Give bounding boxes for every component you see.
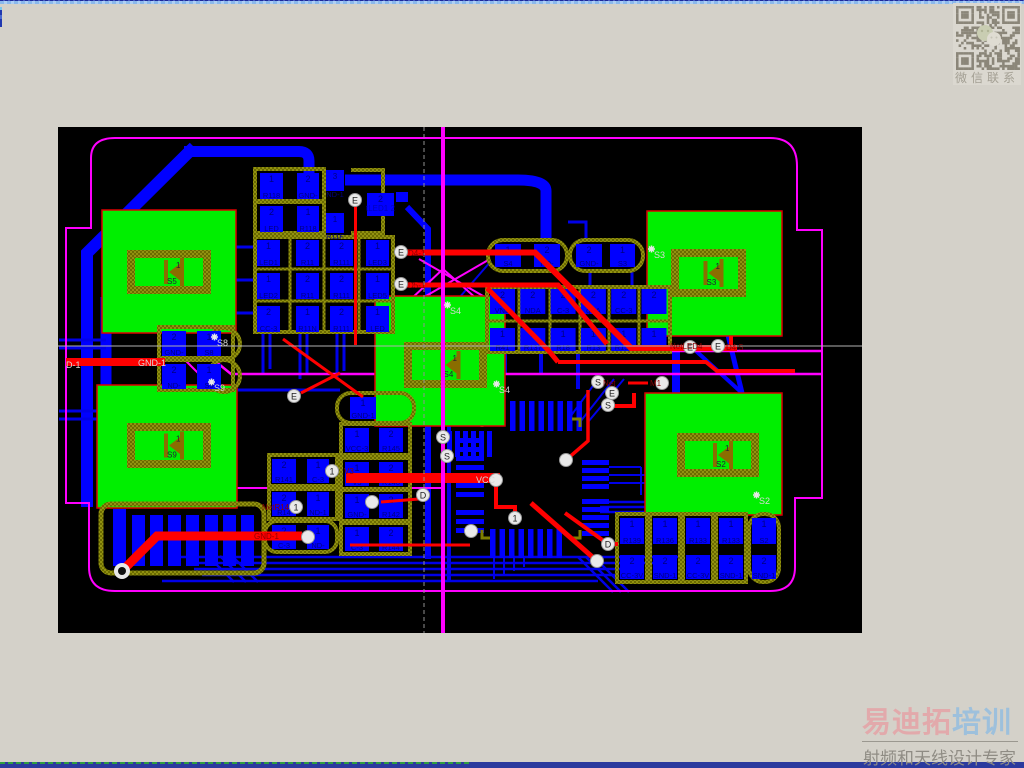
svg-text:2: 2 <box>388 429 393 439</box>
svg-text:2: 2 <box>171 365 176 375</box>
guide gray horizontal crosshair <box>58 345 862 347</box>
svg-text:2: 2 <box>305 241 310 251</box>
svg-text:GND-1: GND-1 <box>351 411 374 420</box>
pad 3 GND-1 <box>326 170 344 199</box>
svg-text:ND-1: ND-1 <box>309 508 327 517</box>
svg-text:2: 2 <box>761 556 766 566</box>
IC U1 QFP footprint pins <box>456 401 609 558</box>
svg-text:1: 1 <box>333 215 338 224</box>
svg-text:1: 1 <box>375 241 380 251</box>
svg-text:S4: S4 <box>503 259 512 268</box>
svg-text:NetR14: NetR14 <box>262 503 290 512</box>
svg-text:R142: R142 <box>382 510 400 519</box>
svg-text:1: 1 <box>662 519 667 529</box>
svg-text:LED2: LED2 <box>259 291 278 300</box>
wire thick blue top-left diagonal/vertical <box>87 147 194 507</box>
testpoint E at 660,219 <box>712 340 725 353</box>
wire blue under S9 horizontal <box>230 389 340 392</box>
svg-text:1: 1 <box>354 463 359 473</box>
testpoint 1 at 238,380 <box>290 501 303 514</box>
trace red VCC bar <box>346 473 500 483</box>
svg-text:R136: R136 <box>656 536 674 545</box>
svg-text:1: 1 <box>315 493 320 503</box>
pad column S2 bottom-right <box>749 514 779 582</box>
svg-text:GND-: GND- <box>298 191 318 200</box>
wire magenta bowtie diagonals <box>410 259 490 300</box>
svg-text:2: 2 <box>530 290 535 300</box>
bracket outline around pads 3/1 <box>351 170 383 233</box>
pads GND/S9 <box>159 360 233 390</box>
svg-text:S4: S4 <box>450 306 461 316</box>
component S5 courtyard <box>131 254 207 290</box>
svg-text:1: 1 <box>512 514 517 524</box>
svg-text:CC-3: CC-3 <box>260 324 278 333</box>
svg-text:ND-: ND- <box>311 541 325 550</box>
wire thick blue bar GND to pill <box>345 180 546 242</box>
pad column R136 bottom-right <box>650 514 680 582</box>
logo tagline 射频和天线设计专家 <box>863 744 1021 768</box>
pad column R139 bottom-right <box>617 514 647 582</box>
svg-text:CC-3V: CC-3V <box>687 571 710 580</box>
trace red GND stub <box>381 499 419 502</box>
testpoint E at 343,125 <box>395 246 408 259</box>
svg-text:D: D <box>420 491 427 501</box>
pad row R14x at y363 <box>341 490 410 521</box>
wire blue right fan of QFP <box>609 467 654 499</box>
svg-text:1: 1 <box>354 495 359 505</box>
svg-text:NDA: NDA <box>525 306 541 315</box>
polygon pour S4 <box>375 296 505 426</box>
svg-text:2: 2 <box>305 274 310 284</box>
trace red diagonal S8 region <box>283 339 363 397</box>
svg-text:2: 2 <box>378 194 383 204</box>
svg-text:C-3: C-3 <box>312 475 324 484</box>
svg-text:1: 1 <box>375 307 380 317</box>
connector J1 pins <box>113 509 254 566</box>
svg-text:R111: R111 <box>333 324 350 333</box>
svg-text:SND-1: SND-1 <box>753 571 776 580</box>
svg-text:2: 2 <box>339 274 344 284</box>
svg-text:D5-1: D5-1 <box>408 281 426 290</box>
svg-text:S8: S8 <box>204 348 213 357</box>
svg-text:CC-3V: CC-3V <box>621 571 644 580</box>
pad row R14x at y297 <box>341 424 410 455</box>
testpoint E at 343,157 <box>395 278 408 291</box>
trace red GND-1 left bar <box>66 358 165 366</box>
testpoint via at 539,434 <box>591 555 604 568</box>
svg-text:2: 2 <box>281 460 286 470</box>
svg-text:M1: M1 <box>650 379 662 388</box>
wire blue L near pill S3 <box>568 222 586 240</box>
svg-text:2: 2 <box>339 307 344 317</box>
svg-text:D4-5: D4-5 <box>726 343 744 352</box>
wire blue stub pill S3 down <box>590 271 632 287</box>
svg-text:LED1: LED1 <box>259 258 278 267</box>
pad row R14x at y331 <box>341 458 410 489</box>
svg-text:R11N: R11N <box>298 324 317 333</box>
svg-text:tLED1 2: tLED1 2 <box>366 204 395 213</box>
pill pad GND-1 <box>337 393 414 423</box>
top window edge light blue line <box>0 1 1024 4</box>
svg-text:2: 2 <box>388 528 393 538</box>
svg-text:2: 2 <box>305 174 310 184</box>
wire magenta bottom-left diagonals <box>182 357 209 384</box>
svg-text:GND-1: GND-1 <box>254 532 279 541</box>
svg-text:CC-3: CC-3 <box>615 306 633 315</box>
PCB editor canvas <box>58 127 862 633</box>
wechat QR code <box>956 6 1020 70</box>
pad column R133 bottom-right <box>716 514 746 582</box>
wire blue diagonal to G4 <box>696 351 742 393</box>
connector J1 outline <box>101 504 264 573</box>
svg-text:VCC-3: VCC-3 <box>346 444 369 453</box>
svg-text:LED: LED <box>264 224 279 233</box>
wire blue stubs below resistor array <box>263 333 344 379</box>
wire blue stubs left edge <box>59 411 98 419</box>
testpoint E at 236,269 <box>288 390 301 403</box>
guide gray dashed vertical <box>423 127 425 633</box>
testpoint via at 314,375 <box>366 496 379 509</box>
svg-text:SND-1: SND-1 <box>654 571 677 580</box>
svg-text:R145: R145 <box>382 444 400 453</box>
svg-text:S3: S3 <box>707 278 717 287</box>
svg-text:E: E <box>398 248 404 258</box>
svg-text:R18: R18 <box>556 343 570 352</box>
svg-text:E: E <box>609 389 615 399</box>
svg-text:1: 1 <box>305 307 310 317</box>
via rings S8/S9 <box>208 328 240 392</box>
svg-text:R11: R11 <box>301 291 314 300</box>
testpoint D at 550,417 <box>602 538 615 551</box>
svg-text:1: 1 <box>293 503 298 513</box>
svg-text:S4: S4 <box>444 370 454 379</box>
svg-text:S: S <box>440 433 446 443</box>
testpoint via at 413,404 <box>465 525 478 538</box>
svg-text:R111: R111 <box>333 291 350 300</box>
svg-text:LED5: LED5 <box>368 291 387 300</box>
testpoint E at 632,220 <box>684 341 697 354</box>
svg-text:R133: R133 <box>722 536 740 545</box>
trace red via to pad D <box>565 513 618 544</box>
pad LED1 2 <box>366 192 408 216</box>
svg-text:S4: S4 <box>499 385 510 395</box>
wire blue stubs G1 to resistor array <box>236 247 256 313</box>
wire magenta horizontal right net <box>665 350 822 353</box>
svg-text:1: 1 <box>266 241 271 251</box>
wire blue vertical cluster C to G4 <box>672 346 680 393</box>
svg-text:2: 2 <box>269 207 274 217</box>
svg-text:2: 2 <box>266 307 271 317</box>
resistor array R13x frames <box>487 287 670 352</box>
pads LED/R118 row2 <box>260 206 319 233</box>
svg-text:1: 1 <box>176 435 181 444</box>
testpoint via at 438,353 <box>490 474 503 487</box>
wechat logo blob in QR center <box>977 25 1001 46</box>
svg-text:E: E <box>398 280 404 290</box>
trace red VCC drop to via <box>496 482 515 518</box>
polygon pour S3 <box>647 211 782 336</box>
svg-text:S: S <box>444 452 450 462</box>
wire blue diagonals array to center <box>394 303 458 377</box>
pad row 3 of array <box>257 240 389 267</box>
svg-text:2: 2 <box>586 245 591 255</box>
pill footprint GND/S3 <box>570 240 643 271</box>
svg-text:D4-1: D4-1 <box>408 249 426 258</box>
wire blue fan QFP top-right to array <box>570 379 624 422</box>
svg-text:1: 1 <box>206 332 211 342</box>
testpoint E at 554,266 <box>606 387 619 400</box>
pin row small stripes under G5 <box>447 431 492 457</box>
svg-text:GND-: GND- <box>347 510 367 519</box>
trace red top of QFP <box>566 390 588 460</box>
svg-text:2: 2 <box>651 290 656 300</box>
svg-text:1: 1 <box>620 245 625 255</box>
svg-text:C-3: C-3 <box>557 306 569 315</box>
component S2 courtyard <box>681 437 755 473</box>
svg-text:E: E <box>352 196 358 206</box>
svg-text:3: 3 <box>333 172 338 181</box>
trace red vertical through array <box>354 200 357 345</box>
svg-text:1: 1 <box>651 329 656 339</box>
pad row bottom of R13x array <box>490 328 667 352</box>
pad row top of R13x array <box>490 289 667 315</box>
board outline keepout magenta <box>66 138 822 591</box>
svg-text:1: 1 <box>176 261 181 270</box>
trace red right of QFP <box>608 393 634 406</box>
IC U1 courtyard corner marks <box>482 419 580 538</box>
svg-text:1: 1 <box>354 429 359 439</box>
svg-text:S2: S2 <box>759 496 770 506</box>
wire blue mid vertical under crosshair <box>407 207 428 559</box>
svg-text:1: 1 <box>728 519 733 529</box>
svg-text:1: 1 <box>329 467 334 477</box>
svg-text:R141: R141 <box>275 475 293 484</box>
svg-text:LED3: LED3 <box>368 258 387 267</box>
svg-text:1: 1 <box>761 519 766 529</box>
testpoint D at 365,368 <box>417 489 430 502</box>
svg-text:R13: R13 <box>587 343 601 352</box>
site logo 易迪拓培训 <box>862 707 1018 739</box>
wire blue bottom bundle <box>162 502 683 592</box>
wire blue vertical near cursor <box>447 390 451 582</box>
trace red thick connector GND <box>122 536 302 571</box>
svg-text:S2: S2 <box>759 536 768 545</box>
svg-text:2: 2 <box>388 463 393 473</box>
testpoint S at 550,278 <box>602 399 615 412</box>
bottom taskbar green dashes <box>0 762 470 764</box>
svg-text:GND-: GND- <box>164 348 184 357</box>
svg-text:2: 2 <box>728 556 733 566</box>
svg-text:2: 2 <box>621 290 626 300</box>
svg-text:2: 2 <box>591 290 596 300</box>
top window edge dark blue line <box>0 0 1024 1</box>
trace red D4 horizontal + diagonal <box>400 253 737 349</box>
svg-text:2: 2 <box>695 556 700 566</box>
svg-text:1: 1 <box>354 528 359 538</box>
component S9 courtyard <box>131 427 207 464</box>
svg-text:LED: LED <box>370 324 385 333</box>
pad column R133 bottom-right <box>683 514 713 582</box>
svg-text:1: 1 <box>453 354 458 363</box>
pad row 5 of array <box>257 306 389 333</box>
wechat QR panel <box>953 3 1021 85</box>
svg-text:1: 1 <box>725 444 730 453</box>
svg-text:R41: R41 <box>496 343 510 352</box>
pill footprint S4/GND <box>488 240 567 271</box>
pad block R141 rows <box>269 455 337 486</box>
testpoint S at 385,310 <box>437 431 450 444</box>
cursor magenta vertical line <box>441 127 445 633</box>
svg-text:1: 1 <box>269 174 274 184</box>
wechat contact caption 微信联系 <box>953 69 1021 86</box>
svg-text:GND-: GND- <box>579 259 599 268</box>
trace red E testpoint stub <box>301 373 340 393</box>
svg-text:S3: S3 <box>618 259 627 268</box>
trace red D5 horizontal + diagonal <box>401 285 607 362</box>
svg-text:2: 2 <box>544 245 549 255</box>
wire magenta long horizontal net <box>204 352 822 374</box>
svg-text:NetLED4: NetLED4 <box>670 342 703 351</box>
svg-text:S5: S5 <box>167 277 177 286</box>
testpoint via at 604,256 <box>656 377 669 390</box>
trace red net M1 stub <box>628 382 648 385</box>
pad row 4 of array <box>257 273 389 300</box>
polygon pour S2 <box>645 393 782 515</box>
wire blue diagonal to pill S4 <box>459 261 491 298</box>
svg-text:2: 2 <box>171 332 176 342</box>
testpoint 1 at 274,344 <box>326 465 339 478</box>
svg-text:1: 1 <box>360 398 365 408</box>
wire blue G2 to G4 diagonal <box>728 335 742 393</box>
svg-text:1: 1 <box>716 262 721 271</box>
svg-text:1: 1 <box>375 274 380 284</box>
svg-text:Net: Net <box>603 379 616 388</box>
svg-text:D-1: D-1 <box>66 360 81 370</box>
svg-text:2: 2 <box>662 556 667 566</box>
pads R118/GND row1 <box>260 173 319 200</box>
svg-text:S8: S8 <box>217 338 228 348</box>
svg-text:2: 2 <box>339 241 344 251</box>
component S4 courtyard <box>408 346 483 384</box>
wire blue drops under cluster C <box>505 353 578 389</box>
svg-text:1: 1 <box>561 329 566 339</box>
wire thick blue top bar to pad column <box>184 152 309 194</box>
svg-text:E: E <box>291 392 297 402</box>
svg-text:1: 1 <box>315 526 320 536</box>
component S3 courtyard <box>675 253 742 293</box>
svg-text:GND-1: GND-1 <box>138 358 166 368</box>
svg-text:R111: R111 <box>333 258 350 267</box>
svg-text:S2: S2 <box>716 460 726 469</box>
svg-text:D: D <box>605 540 612 550</box>
svg-text:S9: S9 <box>214 383 225 393</box>
testpoint E at 297,73 <box>349 194 362 207</box>
svg-text:ND-: ND- <box>167 381 181 390</box>
svg-text:1: 1 <box>500 329 505 339</box>
wire blue drops QFP bottom to bundle <box>494 558 524 579</box>
svg-text:1: 1 <box>315 460 320 470</box>
testpoint via at 508,333 <box>560 454 573 467</box>
svg-text:R11F: R11F <box>326 232 344 241</box>
testpoint O at 64,444 <box>114 563 130 579</box>
wire thick blue second vertical left <box>101 297 112 505</box>
svg-text:2: 2 <box>281 493 286 503</box>
svg-text:R118: R118 <box>263 191 280 200</box>
trace red right elbow net <box>558 336 795 371</box>
testpoint 1 at 457,391 <box>509 512 522 525</box>
svg-text:SND-1: SND-1 <box>720 571 743 580</box>
pad row R14x at y396 <box>341 523 410 554</box>
bottom taskbar bar <box>0 762 1024 768</box>
svg-text:R118: R118 <box>299 224 316 233</box>
testpoint S at 540,255 <box>592 376 605 389</box>
svg-text:R139: R139 <box>623 536 641 545</box>
svg-text:R133: R133 <box>689 536 707 545</box>
polygon pour S5 <box>102 210 236 333</box>
pads GND/S8 <box>159 327 233 358</box>
svg-text:1: 1 <box>206 365 211 375</box>
svg-text:ND-1: ND-1 <box>326 190 344 199</box>
testpoint S at 389,329 <box>441 450 454 463</box>
svg-text:R11: R11 <box>301 258 314 267</box>
svg-text:1: 1 <box>695 519 700 529</box>
svg-text:C-3: C-3 <box>278 541 290 550</box>
trace red diagonal QFP to S2 <box>531 503 597 561</box>
trace red row3 horizontal <box>350 544 470 547</box>
svg-text:VCC: VCC <box>476 475 496 485</box>
svg-text:S9: S9 <box>167 451 177 460</box>
logo underline <box>862 741 1018 742</box>
wire magenta horizontal left-center net <box>189 487 443 489</box>
svg-text:E: E <box>715 342 721 352</box>
svg-text:S: S <box>595 378 601 388</box>
svg-text:S: S <box>605 401 611 411</box>
resistor-LED array R118 group frames <box>255 169 393 332</box>
svg-text:1: 1 <box>629 519 634 529</box>
svg-text:S3: S3 <box>654 250 665 260</box>
svg-text:1: 1 <box>305 207 310 217</box>
polygon pour S9 <box>97 385 237 508</box>
testpoint via at 250,410 <box>302 531 315 544</box>
svg-text:V3: V3 <box>344 467 354 476</box>
svg-text:1: 1 <box>266 274 271 284</box>
svg-text:2: 2 <box>629 556 634 566</box>
wire blue stubs left edge mid <box>59 340 106 348</box>
left edge blue toolbar remnant <box>0 7 2 27</box>
pad 1 R11F <box>326 213 344 241</box>
